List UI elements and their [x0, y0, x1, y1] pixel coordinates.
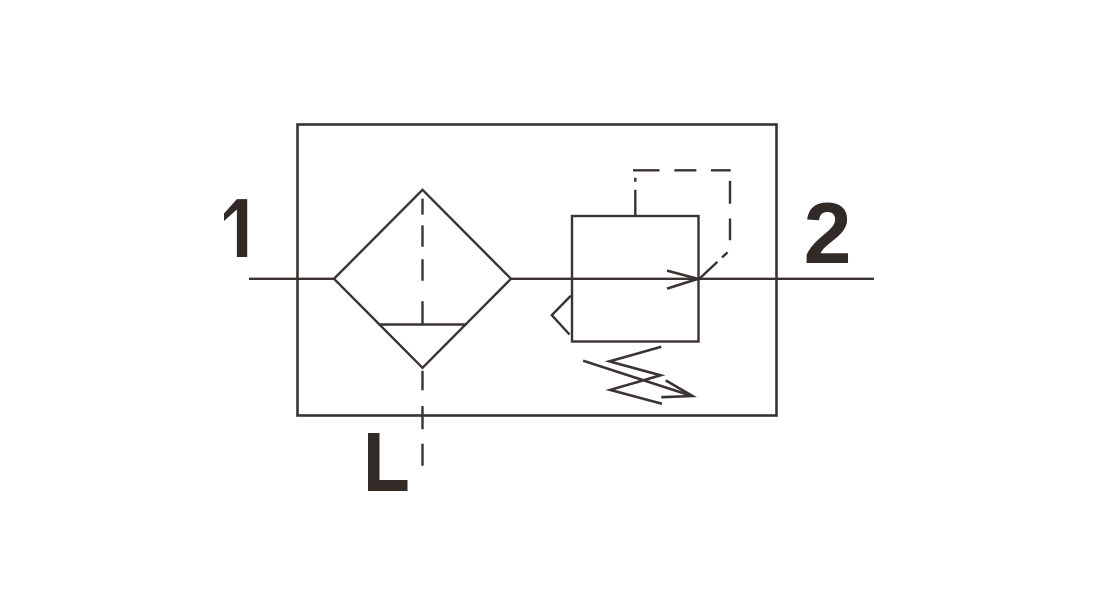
filter center dashed line: [421, 199, 423, 325]
svg-text:2: 2: [804, 186, 852, 282]
filter diamond: [334, 190, 511, 368]
pilot dashed line segment B (top horizontal): [633, 169, 731, 171]
relief triangle: [552, 296, 571, 335]
adjustment arrowhead: [661, 380, 692, 397]
pilot dashed line segment D (diagonal to arrow tip): [699, 250, 730, 279]
enclosure box: [298, 125, 777, 416]
flow line right (filter to port 2 through regulator): [511, 278, 874, 280]
drain dashed line: [421, 371, 423, 466]
regulator box U1: [572, 216, 699, 342]
filter separator line: [379, 323, 467, 325]
port label 1: [224, 199, 247, 257]
pilot dashed line segment A (up from regulator top): [634, 170, 636, 216]
pilot dashed line segment C (right vertical): [729, 170, 731, 250]
flow line left (port 1 to filter): [249, 278, 334, 280]
drain label L: [368, 433, 408, 491]
spring zigzag: [609, 347, 662, 404]
flow arrowhead: [667, 271, 699, 289]
adjustment arrow shaft: [583, 361, 692, 396]
